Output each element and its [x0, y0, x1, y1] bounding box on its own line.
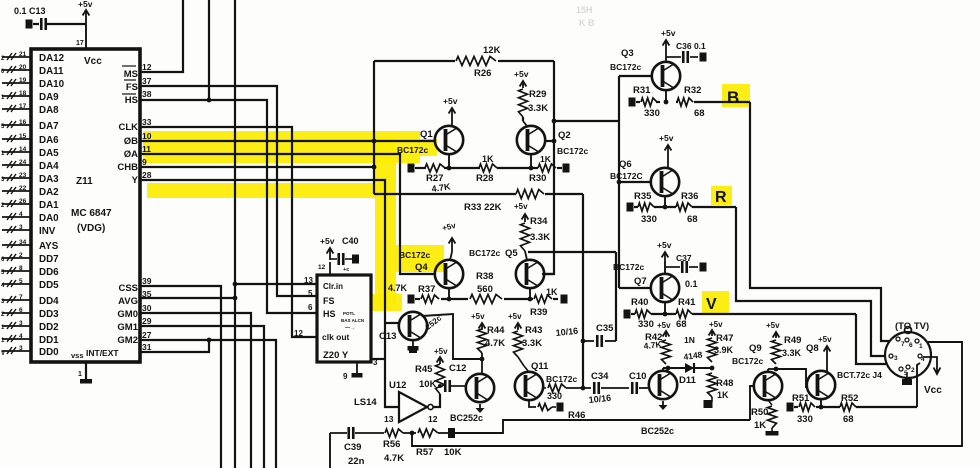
svg-text:Q5: Q5 [505, 248, 518, 259]
svg-text:+5v: +5v [514, 202, 528, 211]
svg-text:+5v: +5v [766, 321, 780, 330]
svg-text:10: 10 [142, 131, 152, 141]
svg-text:3: 3 [19, 320, 23, 327]
connector TO TV circle [885, 332, 931, 378]
svg-text:vss: vss [71, 351, 84, 360]
junction base feed [552, 119, 557, 124]
svg-text:21: 21 [19, 51, 27, 58]
svg-text:Q8: Q8 [806, 343, 819, 354]
svg-text:12: 12 [428, 414, 438, 424]
wire Q4 collector [450, 252, 452, 260]
wire R52 to connector pin2 [917, 363, 920, 407]
svg-text:8: 8 [19, 265, 23, 272]
svg-text:12: 12 [142, 62, 152, 72]
svg-text:R47: R47 [716, 333, 733, 344]
transistor Q10 [649, 371, 677, 399]
pin wire DA8 (pin 17) [2, 108, 31, 110]
resistor R39 1K [534, 295, 552, 303]
svg-text:+5v: +5v [657, 240, 672, 250]
ground connector pin5 [906, 372, 908, 379]
transistor Q12 [466, 374, 494, 402]
highlight R output [711, 186, 732, 205]
svg-text:1K: 1K [717, 390, 729, 400]
svg-text:68: 68 [687, 214, 698, 225]
svg-text:3: 3 [894, 355, 898, 362]
svg-text:14: 14 [19, 146, 27, 153]
svg-text:DA5: DA5 [39, 148, 59, 159]
svg-text:2: 2 [19, 252, 23, 259]
svg-text:FS: FS [126, 82, 138, 93]
svg-text:CHB: CHB [117, 162, 138, 173]
terminal pad R27 [408, 164, 415, 173]
wire AVG to bus x235 [140, 297, 235, 299]
transistor Q2 [517, 126, 545, 154]
wire R40 R41 row [631, 313, 635, 315]
svg-text:BC172c: BC172c [610, 62, 641, 72]
transistor Q9 [754, 372, 782, 400]
resistor R49 3.3K [772, 340, 781, 364]
svg-text:330: 330 [797, 414, 813, 425]
svg-text:R43: R43 [525, 325, 542, 336]
svg-text:3.3K: 3.3K [782, 348, 802, 358]
svg-text:Q11: Q11 [531, 361, 549, 372]
svg-text:+5v: +5v [661, 28, 676, 38]
svg-text:R31: R31 [633, 85, 651, 96]
svg-text:BC172c: BC172c [613, 262, 644, 272]
svg-text:+5v: +5v [78, 0, 93, 9]
svg-text:Vcc: Vcc [84, 56, 102, 67]
svg-text:DA11: DA11 [39, 66, 64, 77]
svg-text:C10: C10 [629, 371, 646, 382]
svg-text:68: 68 [676, 319, 687, 330]
resistor R57 10K [418, 429, 438, 437]
svg-text:2: 2 [911, 367, 915, 374]
svg-text:68: 68 [694, 108, 705, 119]
terminal pad C36 [700, 53, 707, 62]
svg-text:C36 0.1: C36 0.1 [676, 41, 706, 51]
wire x616 vertical [615, 252, 617, 341]
svg-text:Vcc: Vcc [924, 385, 942, 396]
svg-text:ØA: ØA [124, 149, 138, 160]
svg-text:Z20 Y: Z20 Y [323, 350, 349, 361]
wire Q10 collector [662, 368, 664, 371]
svg-text:12: 12 [294, 329, 303, 338]
svg-text:Z11: Z11 [76, 176, 93, 187]
junction phiB R26 [372, 139, 377, 144]
pin wire AYS (pin 34) [2, 244, 31, 246]
svg-text:4.7K: 4.7K [485, 338, 505, 349]
svg-text:+5v: +5v [434, 347, 448, 356]
terminal pad C37 [700, 263, 707, 272]
wire vertical bus x235 top to bottom [234, 0, 236, 468]
wire Q8 emitter [820, 399, 822, 407]
junction bottom bus tap [410, 431, 415, 436]
wire Y branch to Q13 base [385, 322, 400, 324]
svg-text:DA12: DA12 [39, 53, 65, 64]
svg-text:INT/EXT: INT/EXT [86, 348, 119, 358]
pin wire DD1 (pin 4) [2, 338, 31, 340]
diode D11 1N4148 [685, 363, 694, 373]
wire R57 row to Q9 base bus [455, 420, 750, 433]
svg-text:BC172c: BC172c [546, 374, 577, 384]
wire Vcc from pin4 [923, 357, 937, 373]
pin wire DA6 (pin 15) [2, 138, 31, 140]
wire GM1 down [140, 326, 264, 468]
pin wire DD4 (pin 7) [2, 299, 31, 301]
wire video bus x555 [542, 61, 554, 274]
junction Q6 base [617, 180, 622, 185]
pin wire DA3 (pin 23) [2, 177, 31, 179]
junction R42 [666, 366, 671, 371]
svg-text:+5v: +5v [441, 221, 457, 233]
svg-text:R50: R50 [751, 407, 768, 418]
junction C35 x583 [581, 339, 586, 344]
svg-text:MC 6847: MC 6847 [71, 208, 112, 219]
svg-text:—→: —→ [345, 325, 355, 331]
svg-text:39: 39 [142, 276, 152, 286]
wire HS to Z20 [140, 100, 317, 313]
svg-text:Q4: Q4 [415, 262, 428, 273]
svg-text:1K: 1K [540, 154, 552, 164]
svg-text:U12: U12 [389, 380, 406, 391]
svg-text:DD1: DD1 [39, 335, 59, 346]
terminal pad R40 [624, 310, 631, 319]
svg-text:12K: 12K [483, 45, 501, 56]
svg-text:FS: FS [323, 296, 335, 306]
capacitor C35 [583, 340, 594, 342]
resistor R27 [425, 164, 445, 172]
svg-text:3: 3 [19, 224, 23, 231]
svg-text:13: 13 [304, 276, 313, 285]
transistor Q3 [652, 62, 680, 90]
svg-text:20: 20 [19, 64, 27, 71]
pin wire DD3 (pin 6) [2, 312, 31, 314]
svg-text:330: 330 [547, 391, 562, 401]
wire Q3 emitter [665, 90, 667, 102]
connector pins [896, 337, 900, 341]
capacitor C40 pad [352, 255, 359, 264]
terminal pad R46 [557, 403, 564, 412]
ground VDG pin1 [85, 362, 87, 379]
svg-text:R37: R37 [418, 284, 435, 295]
ground Q10 [662, 401, 664, 406]
pin wire DA4 (pin 24) [2, 164, 31, 166]
pin wire DA9 (pin 18) [2, 95, 31, 97]
capacitor C37 [665, 266, 680, 268]
highlight swath Y/phiA down to Q4 and Q13 [375, 137, 396, 305]
svg-text:12: 12 [318, 264, 326, 271]
svg-text:23: 23 [19, 172, 27, 179]
svg-text:HS: HS [323, 309, 336, 319]
svg-text:5: 5 [308, 289, 313, 298]
svg-text:68: 68 [843, 414, 854, 425]
svg-text:7: 7 [901, 341, 905, 348]
junction INT/EXT GM2 [207, 338, 212, 343]
capacitor C13 pad [26, 20, 33, 29]
resistor R45 10K [436, 364, 445, 394]
svg-text:1K: 1K [546, 287, 558, 297]
highlight V output [702, 291, 729, 313]
wire MS pin12 to top edge [140, 0, 183, 72]
ground Q13 [412, 340, 414, 346]
wire R to connector [736, 207, 885, 356]
svg-text:DA0: DA0 [39, 213, 59, 224]
svg-text:6: 6 [19, 307, 23, 314]
svg-text:19: 19 [19, 77, 27, 84]
wire Q7 collector [664, 262, 666, 275]
svg-text:4: 4 [19, 333, 23, 340]
svg-text:R57: R57 [416, 447, 433, 458]
wire bus y252 [528, 251, 616, 253]
svg-text:10/16: 10/16 [555, 326, 578, 338]
pin wire DA0 (pin 4) [2, 216, 31, 218]
svg-text:+c: +c [343, 267, 349, 273]
wire Y to Q13/U12 [140, 180, 399, 407]
svg-text:4148: 4148 [683, 349, 703, 362]
junction Q2 base [552, 139, 557, 144]
wire R57 to pad [438, 432, 448, 434]
svg-text:ØB: ØB [124, 136, 138, 147]
wire x583 down to base row [582, 194, 584, 388]
resistor R35 330 [638, 203, 654, 211]
junction Q5 emitter [528, 297, 533, 302]
wire Q1 emitter [448, 154, 450, 168]
svg-text:+5v: +5v [818, 335, 832, 344]
resistor R38 560 [470, 295, 502, 304]
svg-text:R51: R51 [792, 393, 810, 404]
svg-text:R56: R56 [383, 439, 400, 450]
pin wire INV (pin 3) [2, 229, 31, 231]
svg-text:HS: HS [125, 95, 138, 106]
svg-text:DA1: DA1 [39, 200, 59, 211]
svg-text:C39: C39 [344, 442, 361, 453]
wire phiB to Q1 base [140, 140, 434, 142]
svg-text:V: V [706, 296, 717, 313]
wire output bases vertical x619 [618, 76, 620, 288]
svg-text:BC172c: BC172c [732, 356, 763, 366]
svg-text:R33 22K: R33 22K [464, 202, 502, 213]
resistor R28 1K [479, 164, 497, 172]
svg-text:4.7K: 4.7K [388, 283, 408, 293]
resistor R56 4.7K [385, 429, 403, 437]
svg-text:3.3K: 3.3K [522, 338, 542, 349]
svg-text:3: 3 [373, 358, 378, 367]
svg-text:1: 1 [78, 371, 82, 378]
terminal pad R37 [408, 295, 415, 304]
transistor Q6 [651, 168, 679, 196]
junction C34 x583 [581, 386, 586, 391]
svg-text:Q1: Q1 [420, 129, 433, 140]
resistor R47 3.9K [708, 338, 717, 362]
ground R50 [771, 428, 773, 431]
svg-text:+5v: +5v [320, 236, 335, 246]
resistor 330 Q11 base [543, 387, 546, 389]
resistor R44 4.7K [478, 329, 487, 353]
resistor R42 4.7K [662, 340, 671, 364]
svg-text:3.3K: 3.3K [530, 232, 550, 243]
svg-text:R38: R38 [476, 271, 493, 282]
svg-text:+5v: +5v [709, 320, 723, 329]
svg-text:R34: R34 [530, 216, 548, 227]
svg-text:R28: R28 [476, 173, 493, 184]
wire Q9 collector [767, 369, 769, 372]
svg-text:Q6: Q6 [619, 159, 632, 170]
svg-text:BC172c: BC172c [397, 145, 428, 155]
resistor R52 68 [840, 403, 856, 411]
svg-text:DA7: DA7 [39, 121, 59, 132]
resistor R51 330 [799, 403, 815, 411]
svg-text:11: 11 [142, 144, 151, 154]
wire Q5 collector to x555 [544, 273, 554, 275]
wire R31 R32 row [636, 101, 640, 103]
wire R45 node to C12 [440, 385, 443, 387]
wire emitter row [415, 167, 426, 169]
svg-text:C13: C13 [379, 331, 396, 342]
svg-text:R39: R39 [530, 307, 547, 318]
IC Z11 MC6847 VDG box [31, 49, 140, 362]
transistor Q5 [516, 260, 544, 288]
wire base feed to x619 [554, 120, 619, 122]
resistor R37 [421, 295, 439, 303]
svg-text:(VDG): (VDG) [77, 223, 105, 234]
wire R51 R52 row [794, 406, 798, 408]
wire Q2 emitter [530, 154, 532, 168]
pin wire DA12 (pin 21) [2, 56, 31, 58]
svg-text:(TO TV): (TO TV) [895, 321, 929, 332]
svg-text:34: 34 [19, 239, 27, 246]
wire Q13 collector [422, 314, 482, 359]
resistor R36 68 [676, 203, 692, 211]
svg-text:330: 330 [644, 108, 660, 119]
capacitor C12 [444, 380, 447, 392]
IC Z20 box [317, 275, 371, 362]
wire R34 to Q5 top [525, 251, 527, 260]
svg-text:1N: 1N [684, 335, 695, 345]
svg-text:10/16: 10/16 [588, 393, 611, 405]
wire FS to Z20 [140, 86, 317, 296]
junction Q4 emitter [447, 297, 452, 302]
wire Z20 pin13 from bus x235 [235, 283, 317, 285]
wire Q7 base [619, 287, 651, 289]
svg-text:DD3: DD3 [39, 309, 59, 320]
svg-text:C34: C34 [591, 371, 609, 382]
svg-text:18: 18 [19, 90, 27, 97]
wire Q2 base lead [546, 140, 554, 142]
resistor R31 330 [641, 98, 657, 106]
svg-text:DD7: DD7 [39, 254, 59, 265]
transistor Q4 [435, 260, 463, 288]
svg-text:BC172C: BC172C [610, 171, 643, 181]
svg-text:1K: 1K [754, 420, 766, 431]
svg-text:17: 17 [76, 40, 84, 47]
svg-text:R35: R35 [634, 191, 652, 202]
junction AVG x235 [233, 296, 238, 301]
wire GM0 down [140, 313, 251, 468]
svg-text:330: 330 [641, 214, 657, 225]
wire R26 left vertical [373, 61, 375, 167]
svg-text:R29: R29 [529, 89, 546, 100]
transistor Q11 [515, 372, 543, 400]
svg-text:28: 28 [142, 170, 152, 180]
pin wire DD7 (pin 2) [2, 257, 31, 259]
svg-text:4.7K: 4.7K [384, 453, 404, 464]
wire Vcc pin 17 into IC [85, 24, 87, 49]
junction Q7 emitter [663, 312, 668, 317]
wire Q9 base [750, 386, 754, 420]
svg-text:R41: R41 [678, 297, 696, 308]
svg-text:Q9: Q9 [749, 343, 762, 354]
svg-text:16: 16 [19, 119, 27, 126]
terminal pad R48 [704, 400, 713, 408]
wire vertical from top to HS [208, 0, 210, 100]
pin wire DD0 (pin 3) [2, 350, 31, 352]
svg-text:3.9K: 3.9K [714, 345, 734, 355]
transistor Q1 [435, 126, 463, 154]
junction R47 R48 [710, 366, 715, 371]
svg-text:Y: Y [132, 175, 139, 186]
inverter U12 LS14 [399, 392, 427, 422]
terminal pad R39 [561, 295, 568, 304]
wire R43 to Q11 [518, 357, 524, 366]
svg-text:R26: R26 [474, 68, 491, 79]
svg-text:R36: R36 [681, 191, 698, 202]
wire C39 corner down [329, 433, 331, 468]
svg-text:MS: MS [124, 69, 138, 80]
svg-text:INV: INV [39, 226, 56, 237]
svg-text:DD6: DD6 [39, 267, 59, 278]
wire Q4 Q5 emitter row [415, 298, 420, 300]
svg-text:6: 6 [909, 342, 913, 349]
resistor R32 68 [677, 98, 693, 106]
svg-text:R49: R49 [784, 335, 801, 346]
svg-text:5: 5 [19, 278, 23, 285]
svg-text:GM2: GM2 [117, 335, 138, 346]
svg-text:0.1: 0.1 [685, 279, 698, 289]
wire V to connector [856, 314, 886, 364]
pin wire DA7 (pin 16) [2, 124, 31, 126]
resistor R34 3.3K [521, 223, 530, 251]
junction Q1 emitter [447, 166, 452, 171]
svg-text:3: 3 [19, 345, 23, 352]
wire Z20 pin3 to U12 net [371, 358, 385, 360]
svg-text:GM0: GM0 [117, 309, 138, 320]
pin wire DD6 (pin 8) [2, 270, 31, 272]
svg-text:CSS: CSS [118, 283, 138, 294]
junction R49 Q8 [774, 367, 779, 372]
pin wire DA2 (pin 22) [2, 190, 31, 192]
pin wire DD5 (pin 5) [2, 283, 31, 285]
wire Q7 emitter [664, 302, 666, 314]
junction pin13 x235 [233, 282, 238, 287]
wire Q5 emitter [529, 288, 531, 299]
capacitor C13 [33, 23, 39, 25]
svg-text:DD5: DD5 [39, 280, 59, 291]
resistor R33 22K [516, 190, 544, 199]
svg-text:22n: 22n [348, 456, 365, 467]
wire INT/EXT up to GM2 [140, 340, 209, 352]
svg-text:R40: R40 [631, 297, 648, 308]
wire Q4 emitter [448, 288, 450, 299]
svg-text:B: B [727, 88, 739, 107]
capacitor C39 [330, 432, 347, 434]
highlight band phiB/phiA rows [143, 131, 420, 163]
svg-text:3.3K: 3.3K [528, 103, 548, 114]
wire R56 R57 [403, 432, 416, 434]
svg-text:9: 9 [142, 157, 147, 167]
svg-text:+5v: +5v [443, 96, 458, 106]
svg-text:DD2: DD2 [39, 322, 59, 333]
highlight band Y row [147, 183, 387, 198]
